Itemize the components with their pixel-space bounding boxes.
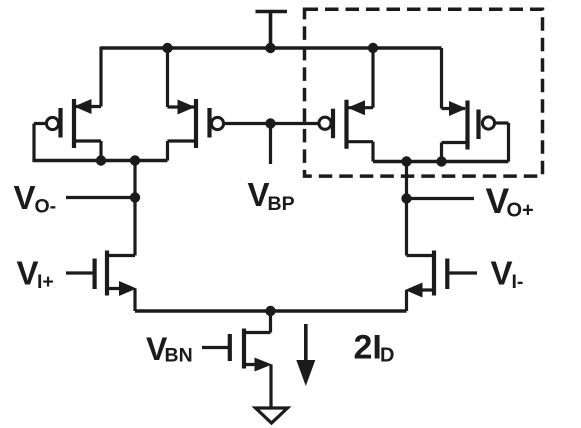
svg-text:BP: BP [268,193,295,215]
svg-text:O+: O+ [507,200,534,222]
pmos M4 (right load, diode-connected) [442,48,509,162]
label Vi+ [17,255,54,294]
junction dot rail / M2 drain [162,43,172,53]
label Vo- [14,179,57,218]
dashed box (replica / load highlight) [305,9,543,176]
label 2ID [354,329,395,367]
power supply T symbol (VDD) [256,12,288,49]
current arrow 2ID [296,324,315,386]
nmos M5 (input Vi+) [66,251,137,312]
junction dot rail / M3 drain [368,43,378,53]
junction dot tail [265,306,275,316]
svg-text:V: V [14,179,36,216]
junction dot VBP [265,118,275,128]
nmos M6 (input Vi-) [405,251,477,312]
wire Vo+ net [407,162,475,256]
pmos M2 (left pair, mirror load) [168,48,224,161]
svg-text:V: V [491,255,513,292]
svg-text:I-: I- [512,271,524,293]
svg-text:V: V [17,255,39,292]
svg-text:2I: 2I [354,329,382,367]
svg-text:V: V [248,176,270,213]
svg-text:BN: BN [165,345,193,367]
label VBP [248,176,295,215]
wire Vo- net [66,161,135,256]
wire top supply rail [101,46,442,49]
junction dot Vo+ [401,193,411,203]
pmos M1 (left load, diode-connected) [34,47,101,161]
label VBN [146,331,193,367]
svg-text:I+: I+ [37,271,54,293]
junction dot M1 source [96,155,106,165]
svg-text:D: D [380,345,394,367]
nmos M7 (tail current source, VBN) [202,311,272,408]
junction dot rail / supply [265,43,275,53]
junction dot Vo+ tap [401,156,411,166]
junction dot Vo- tap [130,155,140,165]
label Vo+ [486,181,534,222]
ground symbol [256,408,288,423]
junction dot M4 source [436,156,446,166]
wire right pair source rail [373,160,509,163]
svg-text:O-: O- [35,196,57,218]
label Vi- [491,255,524,294]
junction dot Vo- [130,192,140,202]
wire VBP net [223,124,319,165]
wire tail rail [135,309,407,312]
wire left pair source rail [32,159,167,162]
pmos M3 (right pair, mirror load) [319,48,373,162]
